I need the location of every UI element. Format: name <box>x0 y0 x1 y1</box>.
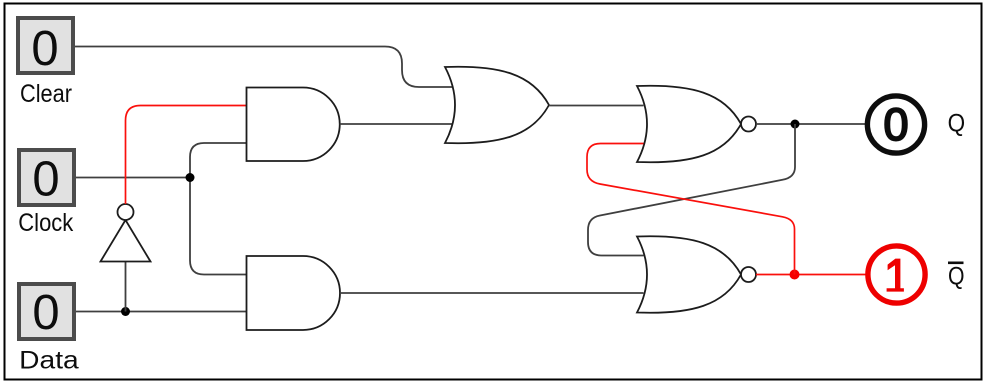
wire Clock to node CLK <box>76 177 190 179</box>
wire node Q cross feedback to NOR2 upper input <box>588 124 795 256</box>
wire node CLK branch to AND1 lower input and AND2 upper input <box>190 143 247 275</box>
input Data <box>19 284 79 375</box>
wire node Qbar cross feedback to NOR1 lower input (high, red) <box>587 144 795 275</box>
AND gate A1 (top) <box>247 88 340 162</box>
output Qbar indicator (value 1, red) <box>868 246 965 303</box>
svg-text:Clear: Clear <box>20 80 72 108</box>
wire NOR1 output to output Q <box>756 123 866 125</box>
inverter U1 (NOT gate, points up) <box>101 204 151 262</box>
wire OR1 output to NOR1 upper input <box>549 105 644 107</box>
svg-text:0: 0 <box>32 286 59 340</box>
wire Clear to OR1 upper input <box>75 47 454 88</box>
wire Data to AND2 lower input <box>76 311 247 313</box>
OR gate O1 <box>445 67 549 144</box>
wire AND2 output to NOR2 lower input <box>340 292 644 294</box>
wire node DATA to inverter input <box>125 262 127 312</box>
junction node CLK <box>186 173 195 182</box>
NOR gate N2 (bottom) <box>637 236 756 313</box>
svg-text:Data: Data <box>19 347 79 375</box>
wire AND1 output to OR1 lower input <box>340 123 454 125</box>
svg-text:0: 0 <box>32 153 59 207</box>
wire NOR2 output to output Qbar (high, red) <box>756 274 866 276</box>
junction node DATA <box>121 307 130 316</box>
junction node Qbar (red) <box>790 270 800 280</box>
AND gate A2 (bottom) <box>247 256 341 330</box>
NOR gate N1 (top) <box>637 86 756 163</box>
junction node Q <box>791 120 800 129</box>
svg-text:0: 0 <box>31 22 58 76</box>
input Clock <box>18 150 74 237</box>
svg-text:0: 0 <box>883 99 908 150</box>
wire inverter output to AND1 upper input (high, red) <box>126 106 247 205</box>
input Clear <box>18 18 73 108</box>
svg-text:Clock: Clock <box>18 209 73 237</box>
svg-text:Q: Q <box>948 263 965 291</box>
output Q indicator (value 0) <box>867 96 965 153</box>
svg-text:Q: Q <box>948 109 966 137</box>
